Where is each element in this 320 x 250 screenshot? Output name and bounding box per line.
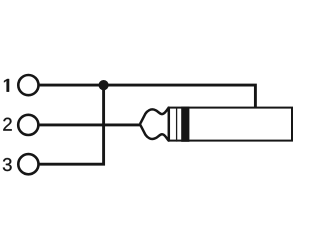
- junction dot: [99, 80, 109, 90]
- terminal 3: [18, 154, 38, 174]
- wire branch from junction down to terminal 3 wire: [38, 85, 104, 164]
- wire from terminal 1 to sleeve: [38, 85, 255, 108]
- label 3: [3, 158, 12, 171]
- terminal 1: [18, 75, 38, 95]
- plug sleeve barrel: [169, 108, 292, 141]
- label 2: [3, 118, 11, 131]
- label 1: [4, 79, 9, 92]
- tip separator line: [176, 107, 178, 142]
- insulator band: [181, 107, 189, 142]
- terminal 2: [18, 115, 38, 135]
- wire from terminal 2 to tip: [38, 123, 140, 126]
- plug tip: [140, 108, 169, 141]
